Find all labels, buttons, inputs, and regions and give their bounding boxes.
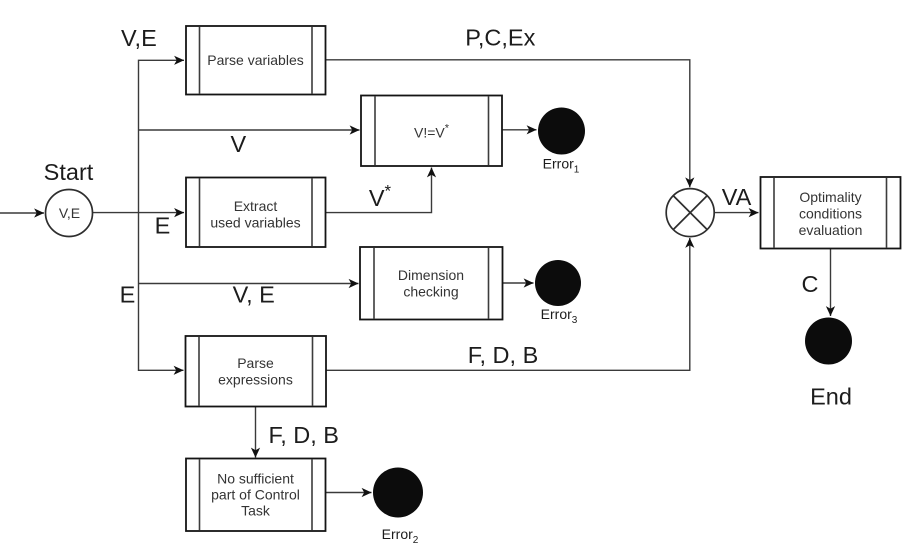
svg-text:End: End — [810, 384, 852, 410]
svg-text:conditions: conditions — [799, 206, 862, 222]
svg-text:Task: Task — [241, 503, 271, 519]
svg-text:expressions: expressions — [218, 372, 293, 388]
svg-text:Extract: Extract — [234, 198, 278, 214]
svg-text:C: C — [802, 271, 819, 297]
svg-text:V,E: V,E — [59, 205, 80, 221]
svg-text:Optimality: Optimality — [799, 189, 861, 205]
svg-text:Parse variables: Parse variables — [207, 52, 304, 68]
svg-text:Error2: Error2 — [382, 526, 419, 546]
svg-text:Start: Start — [44, 159, 94, 185]
svg-text:part of Control: part of Control — [211, 487, 300, 503]
svg-text:V, E: V, E — [233, 282, 275, 308]
svg-text:Error3: Error3 — [541, 306, 578, 326]
svg-text:checking: checking — [403, 284, 458, 300]
svg-text:V: V — [231, 131, 247, 157]
svg-text:F, D, B: F, D, B — [468, 342, 539, 368]
svg-text:Parse: Parse — [237, 355, 274, 371]
svg-text:used variables: used variables — [210, 215, 300, 231]
svg-text:E: E — [120, 282, 136, 308]
svg-text:F, D, B: F, D, B — [268, 422, 339, 448]
svg-text:Error1: Error1 — [543, 156, 580, 176]
svg-text:P,C,Ex: P,C,Ex — [465, 25, 535, 51]
svg-text:E: E — [155, 213, 171, 239]
svg-text:No sufficient: No sufficient — [217, 471, 294, 487]
svg-text:VA: VA — [722, 184, 752, 210]
svg-text:V!=V*: V!=V* — [414, 123, 450, 141]
svg-text:V*: V* — [369, 182, 392, 212]
svg-text:Dimension: Dimension — [398, 267, 464, 283]
svg-text:evaluation: evaluation — [799, 222, 863, 238]
svg-text:V,E: V,E — [121, 25, 157, 51]
